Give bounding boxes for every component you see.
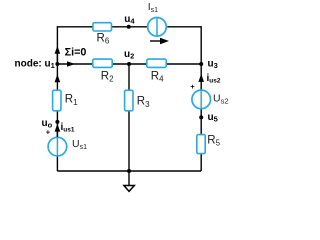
voltage source Us1 bbox=[48, 137, 67, 156]
resistor R6 bbox=[93, 23, 112, 31]
svg-text:ius1: ius1 bbox=[61, 122, 75, 134]
svg-text:R4: R4 bbox=[151, 70, 164, 83]
svg-text:R5: R5 bbox=[207, 134, 220, 147]
svg-text:uo: uo bbox=[42, 118, 53, 130]
svg-text:node: u1: node: u1 bbox=[15, 59, 55, 71]
wire: left column R1 to Us1 top bbox=[56, 111, 58, 137]
wire: right column R5 to bottom wire bbox=[200, 154, 202, 171]
current source Is1 bbox=[148, 18, 167, 37]
wire: middle column R3 to bottom wire bbox=[128, 111, 130, 171]
wire: top horizontal R6 to Is1 bbox=[112, 26, 148, 28]
svg-text:R6: R6 bbox=[97, 32, 110, 45]
wire: left column Us1 bottom to bottom wire bbox=[56, 156, 58, 171]
svg-text:R1: R1 bbox=[65, 94, 78, 107]
svg-text:u4: u4 bbox=[124, 14, 135, 26]
ground bbox=[127, 169, 131, 173]
wire: mid horizontal R2 to R4 (through node u2) bbox=[112, 63, 147, 65]
wire: top horizontal left segment (corner to R6) bbox=[57, 27, 93, 64]
svg-text:Us2: Us2 bbox=[213, 92, 229, 105]
resistor R2 bbox=[93, 59, 112, 67]
svg-text:+: + bbox=[190, 82, 195, 91]
svg-text:u2: u2 bbox=[124, 49, 134, 61]
wire: bottom horizontal bbox=[57, 170, 201, 172]
wire: middle column u2 down to R3 bbox=[128, 64, 130, 90]
svg-text:R3: R3 bbox=[137, 96, 150, 109]
svg-text:ius2: ius2 bbox=[207, 73, 221, 85]
resistor R5 bbox=[197, 135, 205, 154]
svg-text:R2: R2 bbox=[101, 70, 114, 83]
resistor R1 bbox=[53, 90, 61, 111]
wire: mid horizontal u1 to R2 bbox=[57, 63, 92, 65]
node u5 bbox=[199, 115, 203, 119]
wire: left column u1 down to R1 bbox=[56, 64, 58, 90]
node u2 bbox=[127, 62, 131, 66]
svg-text:u3: u3 bbox=[208, 59, 218, 71]
wire: right column u3 to Us2 top bbox=[200, 64, 202, 90]
node u4 bbox=[127, 25, 131, 29]
wire: right column Us2 bottom to R5 bbox=[200, 109, 202, 135]
resistor R3 bbox=[125, 90, 133, 111]
arrow: KCL right arrow from node u1 bbox=[67, 61, 75, 67]
arrow: current i_us2 (up into node u3) bbox=[198, 74, 204, 82]
svg-text:Us1: Us1 bbox=[72, 138, 87, 151]
svg-text:Σi=0: Σi=0 bbox=[65, 46, 87, 58]
resistor R4 bbox=[147, 59, 166, 67]
node u3 bbox=[199, 62, 203, 66]
node u0 bbox=[55, 120, 59, 124]
arrow: KCL up arrow below node u1 bbox=[55, 74, 61, 82]
voltage source Us2 bbox=[192, 90, 211, 109]
wire: mid horizontal R4 to node u3 bbox=[166, 63, 201, 65]
svg-text:u5: u5 bbox=[208, 112, 218, 124]
arrow: KCL up arrow above node u1 bbox=[55, 46, 61, 54]
svg-text:Is1: Is1 bbox=[148, 1, 158, 14]
wire: top horizontal Is1 to right corner, down to node u3 bbox=[167, 27, 201, 64]
arrow: current i_us1 (up into node u0) bbox=[55, 124, 61, 132]
arrow: Is1 current direction (right) bbox=[150, 40, 162, 42]
node u1 bbox=[55, 62, 59, 66]
